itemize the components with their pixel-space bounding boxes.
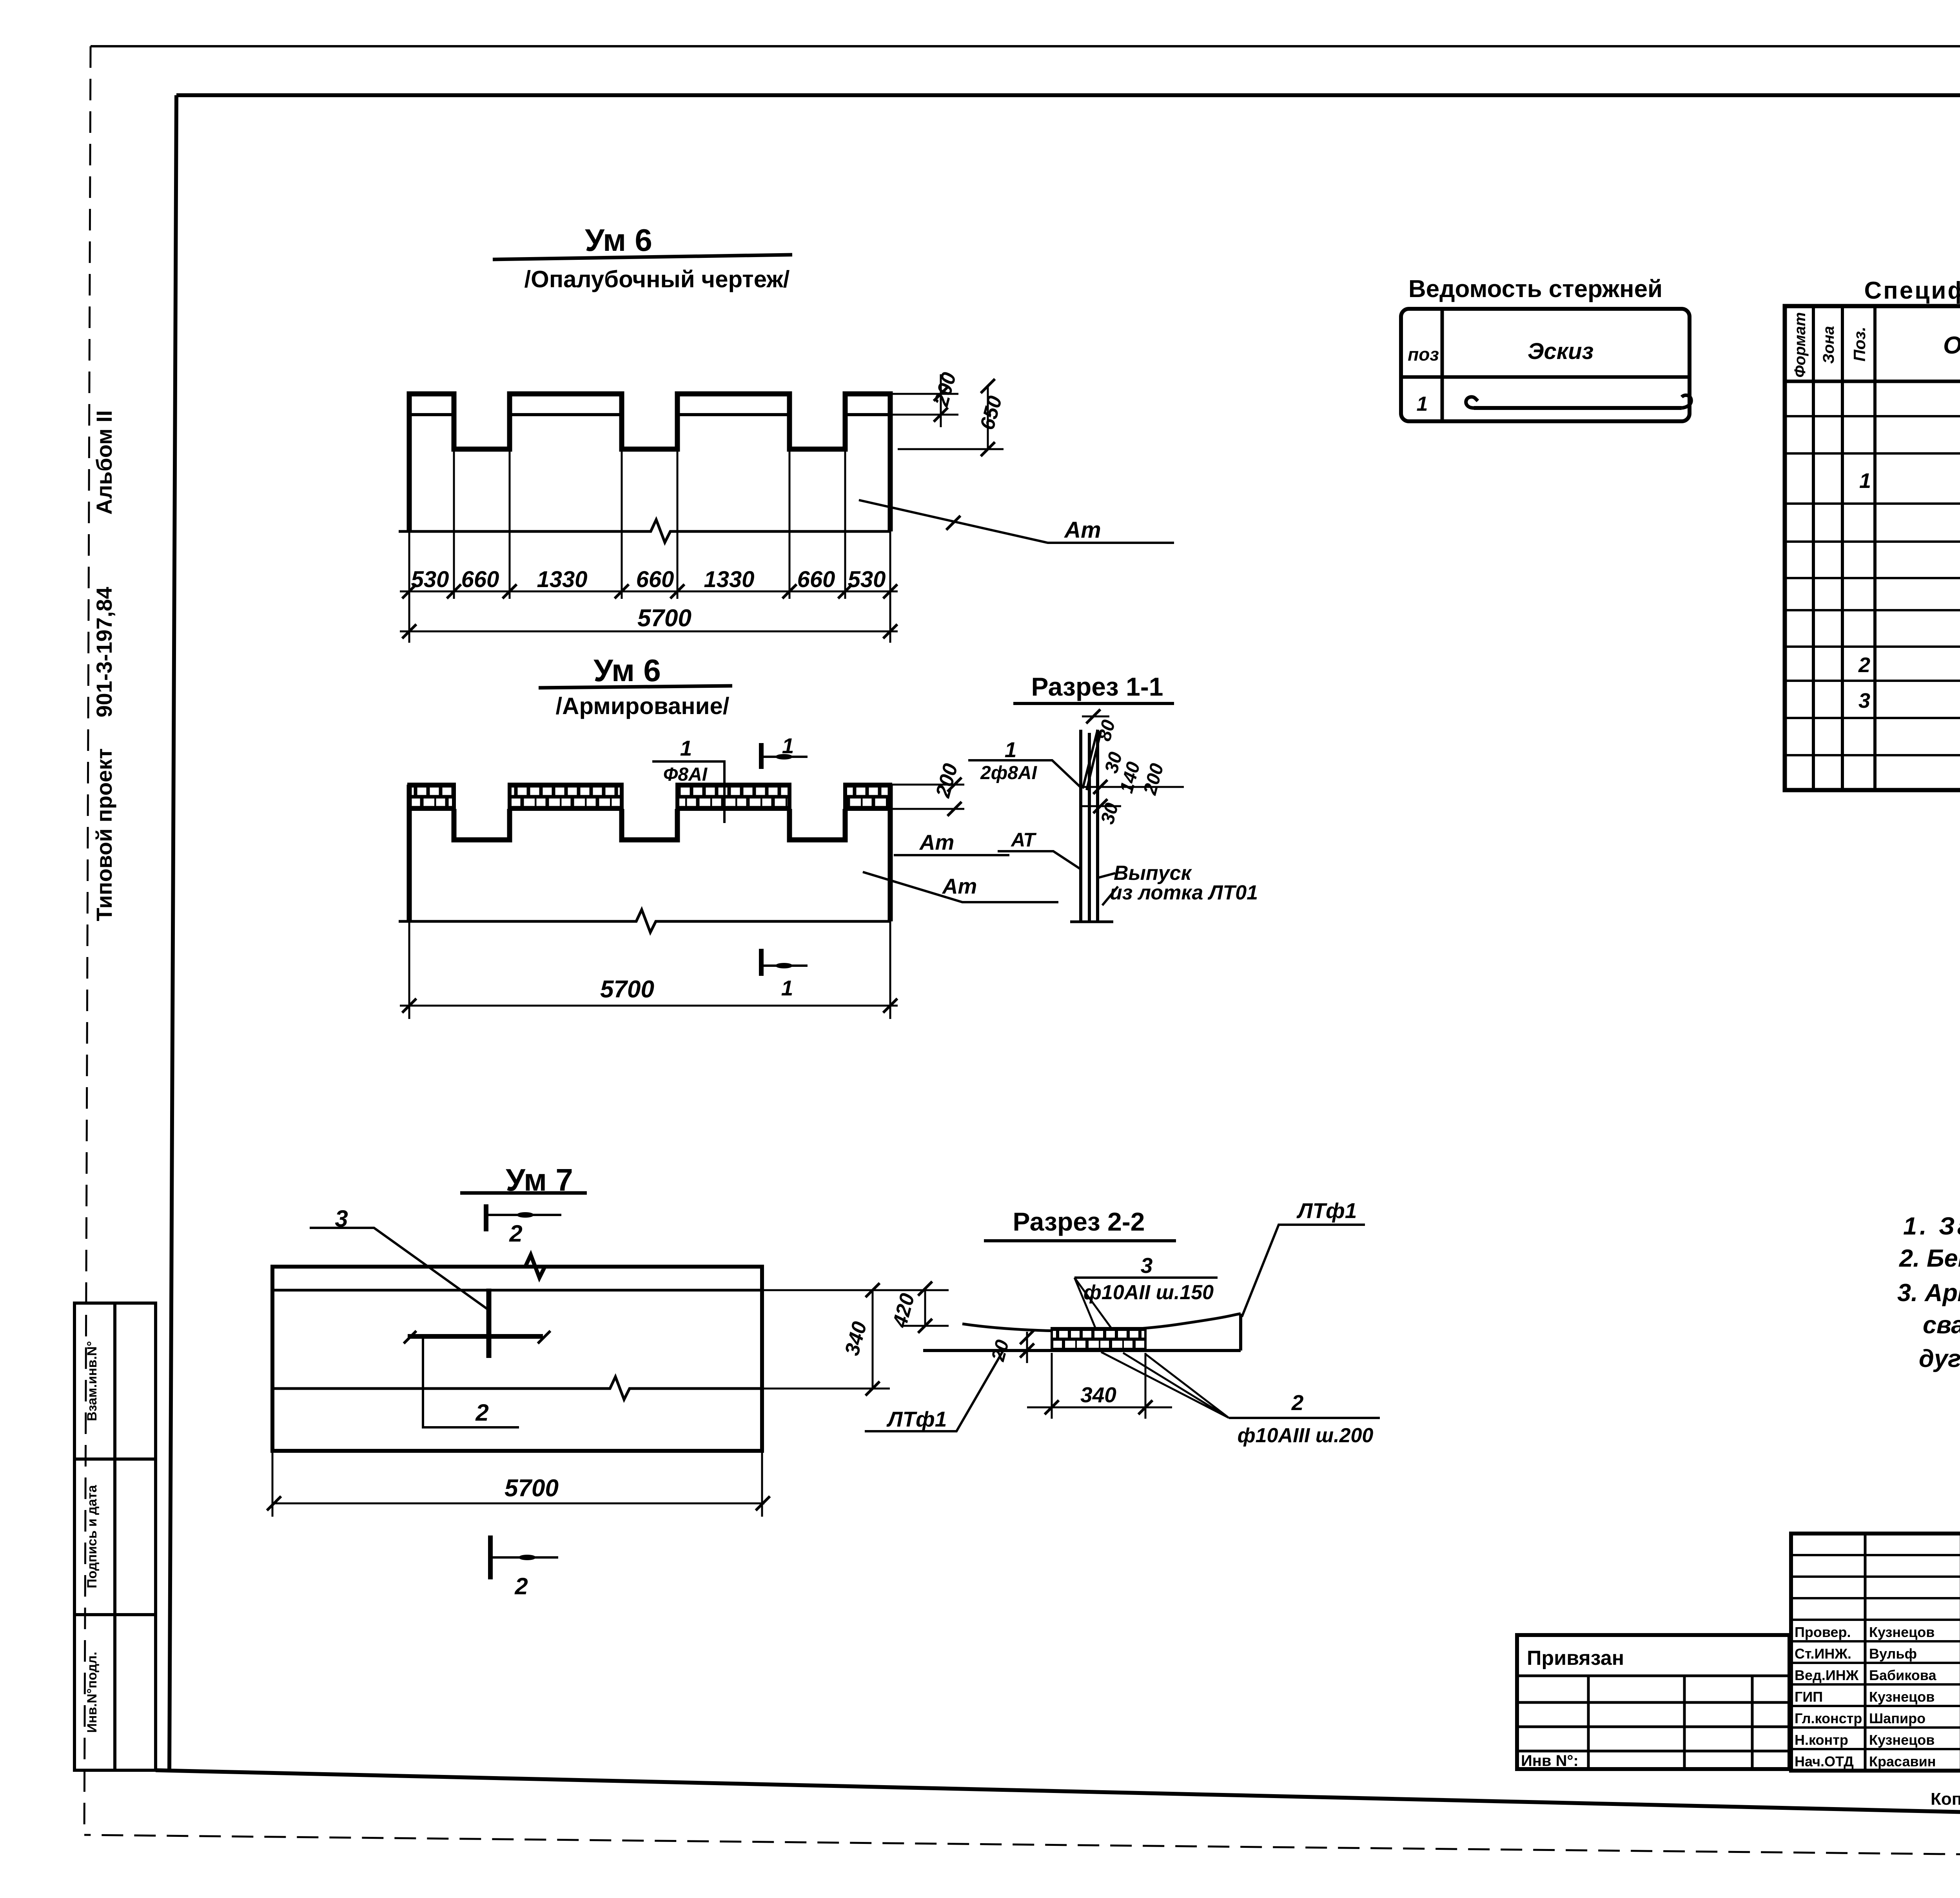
svg-text:Подпись и дата: Подпись и дата (85, 1485, 100, 1588)
svg-text:сварить с арматурой поз.3, поз: сварить с арматурой поз.3, поз.1 (1923, 1311, 1960, 1339)
svg-text:1: 1 (782, 734, 794, 758)
svg-text:Кузнецов: Кузнецов (1869, 1732, 1935, 1748)
svg-text:200: 200 (931, 761, 962, 800)
svg-text:Эскиз: Эскиз (1528, 339, 1593, 364)
svg-text:Красавин: Красавин (1869, 1753, 1936, 1769)
svg-text:1: 1 (1005, 738, 1017, 762)
svg-text:1: 1 (680, 736, 692, 760)
svg-text:поз: поз (1408, 344, 1439, 364)
svg-text:1: 1 (1859, 469, 1871, 493)
svg-text:2ф8АI: 2ф8АI (980, 763, 1038, 783)
svg-text:2: 2 (475, 1399, 488, 1426)
svg-text:Привязан: Привязан (1527, 1647, 1624, 1670)
svg-text:Ф8АI: Ф8АI (663, 764, 708, 785)
svg-text:Инв N°:: Инв N°: (1521, 1752, 1579, 1769)
svg-text:ф10АIII ш.200: ф10АIII ш.200 (1238, 1424, 1374, 1447)
svg-text:Ум 6: Ум 6 (585, 223, 652, 257)
svg-text:2: 2 (514, 1573, 528, 1599)
svg-text:из лотка ЛТ01: из лотка ЛТ01 (1110, 881, 1258, 904)
svg-text:901-3-197,84: 901-3-197,84 (92, 587, 116, 717)
svg-text:340: 340 (840, 1319, 871, 1358)
svg-text:ЛТф1: ЛТф1 (1296, 1198, 1357, 1223)
svg-text:530: 530 (848, 567, 886, 592)
svg-text:Кузнецов: Кузнецов (1869, 1624, 1935, 1640)
svg-text:ф10АII ш.150: ф10АII ш.150 (1083, 1281, 1214, 1304)
svg-text:/Армирование/: /Армирование/ (555, 693, 729, 719)
svg-text:Ст.ИНЖ.: Ст.ИНЖ. (1795, 1646, 1851, 1662)
svg-text:Ат: Ат (919, 830, 955, 854)
svg-text:340: 340 (1080, 1383, 1116, 1407)
svg-text:420: 420 (888, 1291, 919, 1330)
svg-text:Спецификация монолитной конс: Спецификация монолитной конструкции (1864, 277, 1960, 304)
svg-text:/Опалубочный чертеж/: /Опалубочный чертеж/ (524, 266, 790, 292)
svg-text:Взам.инв.N°: Взам.инв.N° (85, 1341, 100, 1421)
svg-text:Провер.: Провер. (1795, 1624, 1851, 1640)
svg-text:АТ: АТ (1010, 829, 1037, 851)
svg-text:5700: 5700 (600, 976, 654, 1003)
svg-text:2: 2 (1291, 1390, 1304, 1415)
svg-text:Разрез 1-1: Разрез 1-1 (1031, 672, 1163, 701)
svg-text:Формат: Формат (1791, 312, 1809, 378)
svg-text:3. Арматурные выпуски сборного: 3. Арматурные выпуски сборного лотка (1897, 1279, 1960, 1307)
svg-text:1330: 1330 (704, 567, 754, 592)
svg-text:Н.контр: Н.контр (1795, 1732, 1848, 1748)
svg-text:Шапиро: Шапиро (1869, 1710, 1926, 1726)
svg-text:Поз.: Поз. (1850, 327, 1869, 362)
svg-text:Инв.N°подл.: Инв.N°подл. (85, 1652, 100, 1733)
svg-text:Ат: Ат (1063, 517, 1101, 543)
svg-text:Типовой проект: Типовой проект (92, 748, 116, 921)
svg-text:Вульф: Вульф (1869, 1646, 1917, 1662)
svg-text:3: 3 (1858, 689, 1870, 712)
svg-text:ГИП: ГИП (1795, 1689, 1823, 1705)
svg-text:1: 1 (1417, 393, 1428, 415)
svg-text:ЛТф1: ЛТф1 (886, 1407, 947, 1431)
svg-text:Ат: Ат (942, 874, 977, 898)
svg-text:Нач.ОТД: Нач.ОТД (1795, 1753, 1854, 1769)
svg-text:530: 530 (411, 567, 449, 592)
svg-text:1330: 1330 (537, 567, 587, 592)
svg-text:2: 2 (509, 1220, 522, 1247)
svg-text:Обозначение: Обозначение (1943, 332, 1960, 359)
svg-text:Альбом II: Альбом II (92, 410, 116, 515)
svg-text:2: 2 (1858, 653, 1870, 677)
svg-text:1: 1 (781, 976, 793, 1000)
svg-text:200: 200 (930, 370, 961, 409)
svg-text:660: 660 (797, 567, 835, 592)
svg-text:Зона: Зона (1820, 326, 1837, 364)
svg-text:Бабикова: Бабикова (1869, 1667, 1936, 1683)
svg-text:660: 660 (636, 567, 674, 592)
svg-text:2. Бетон для лотков - М200, Мр: 2. Бетон для лотков - М200, Мрз 50, ВЧ. (1899, 1245, 1960, 1272)
svg-text:Кузнецов: Кузнецов (1869, 1689, 1935, 1705)
svg-text:1. Защитный слой принят 20мм.: 1. Защитный слой принят 20мм. (1903, 1213, 1960, 1240)
svg-text:Разрез 2-2: Разрез 2-2 (1013, 1207, 1145, 1236)
svg-text:дуговой сваркой внахлестку, ка: дуговой сваркой внахлестку, катет шва=6м… (1919, 1345, 1960, 1372)
svg-text:650: 650 (976, 393, 1006, 432)
svg-text:3: 3 (1141, 1253, 1153, 1278)
svg-text:5700: 5700 (637, 605, 691, 632)
svg-text:Ведомость стержней: Ведомость стержней (1408, 276, 1662, 303)
svg-text:Гл.констр: Гл.констр (1795, 1710, 1862, 1726)
svg-text:Вед.ИНЖ: Вед.ИНЖ (1795, 1667, 1859, 1683)
svg-text:5700: 5700 (505, 1475, 559, 1502)
svg-text:20: 20 (987, 1338, 1013, 1364)
svg-text:660: 660 (461, 567, 499, 592)
svg-text:Ум 6: Ум 6 (593, 653, 661, 688)
svg-text:Копировал: Коршунова: Копировал: Коршунова (1931, 1789, 1960, 1809)
